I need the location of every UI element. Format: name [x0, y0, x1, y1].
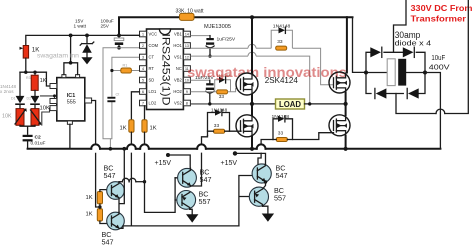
- ground right pair: [263, 206, 268, 213]
- node load left: [250, 102, 254, 106]
- 555 right pin output: [85, 98, 92, 103]
- bridge rectangle: [366, 52, 425, 93]
- diode bridge top-right: [403, 47, 414, 57]
- svg-text:diode x 4: diode x 4: [395, 39, 432, 48]
- svg-text:R1: R1: [123, 63, 128, 67]
- wire LO2 line down to middle pair bases: [145, 153, 176, 212]
- svg-text:1K: 1K: [150, 126, 157, 132]
- diode bridge bottom-right: [408, 88, 419, 98]
- diode D2: [31, 96, 40, 104]
- wire preset P2 wiper to 555 pin: [42, 108, 50, 126]
- capacitor bootstrap 1uF/25V top: [209, 36, 211, 38]
- 555 bottom pin to ground bus: [67, 121, 72, 124]
- svg-text:LOAD: LOAD: [279, 100, 301, 109]
- svg-text:2: 2: [142, 44, 144, 48]
- resistor 33K 10 watt: [180, 13, 195, 20]
- wire right rail drop to top-right mosfet drain: [346, 17, 348, 72]
- LOAD box: [276, 99, 305, 109]
- diode D1: [16, 96, 25, 104]
- wire 555 out down to 1K pair: [96, 153, 100, 207]
- svg-text:MJE13005: MJE13005: [204, 24, 231, 30]
- svg-text:330V DC From: 330V DC From: [411, 3, 473, 13]
- wire network D feed from right pair: [261, 140, 273, 145]
- node rail-zener: [85, 34, 89, 38]
- svg-text:IC1: IC1: [67, 93, 75, 99]
- svg-text:+15V: +15V: [221, 160, 238, 167]
- wire bridge plus to bus: [425, 73, 440, 149]
- node rail-100uF corner: [117, 34, 121, 38]
- svg-text:555: 555: [67, 100, 76, 106]
- resistor R1: [112, 70, 140, 72]
- svg-text:8: 8: [186, 102, 188, 106]
- svg-text:+15V: +15V: [155, 160, 172, 167]
- svg-text:33: 33: [278, 130, 284, 136]
- wire LO1 line down and across to right pair bases: [131, 153, 239, 226]
- wire 1K chain to bases: [100, 190, 107, 192]
- resistor 1K top left: [23, 46, 28, 59]
- svg-text:NC: NC: [176, 66, 182, 71]
- ground under zener: [81, 57, 92, 64]
- svg-text:1: 1: [142, 33, 144, 37]
- wire load left: [252, 103, 276, 105]
- transistor BC547 right: [252, 164, 271, 183]
- svg-text:3: 3: [142, 56, 144, 60]
- chip pin boxes right 14-8: [183, 31, 190, 106]
- wire right pair base rail: [239, 176, 254, 226]
- wire left pair midpoint to bus: [119, 149, 124, 212]
- IC IRS2453 body: [147, 29, 184, 110]
- wire middle emitters junction to network C: [191, 153, 202, 186]
- ground middle pair: [190, 209, 192, 214]
- svg-text:CT: CT: [149, 55, 155, 60]
- wire 15V rail y=35.4: [26, 35, 140, 45]
- transistor BC547 left bottom: [107, 212, 125, 230]
- wire CT path from pin3: [112, 57, 140, 97]
- transistor BC547 middle: [178, 168, 197, 187]
- wire left pair collector to LO2 line: [119, 181, 122, 183]
- wire VB2 to cap2: [191, 79, 210, 81]
- svg-text:7: 7: [142, 102, 144, 106]
- svg-text:1K: 1K: [86, 195, 93, 201]
- svg-text:Transformer: Transformer: [411, 14, 467, 24]
- svg-text:547: 547: [102, 238, 114, 247]
- svg-text:547: 547: [276, 171, 288, 180]
- svg-text:IRS2453(1)D: IRS2453(1)D: [159, 34, 171, 106]
- wire presets bottom join: [20, 125, 35, 134]
- wire network C feed from middle pair: [202, 136, 208, 145]
- svg-text:557: 557: [274, 194, 286, 203]
- 555 left pin stubs: [50, 84, 57, 89]
- chip pin boxes left 1-7: [140, 31, 147, 106]
- svg-text:4: 4: [142, 67, 144, 71]
- svg-text:10K: 10K: [40, 105, 50, 111]
- svg-text:HO2: HO2: [173, 89, 182, 94]
- mosfet Q4 bottom-right 2SK4124: [329, 115, 350, 136]
- main ground bus y=148.8: [28, 148, 92, 150]
- capacitor Ct: [107, 97, 115, 99]
- svg-text:1N4148: 1N4148: [273, 23, 291, 29]
- svg-text:1K: 1K: [120, 126, 127, 132]
- svg-text:1K: 1K: [40, 78, 47, 84]
- wire top 330V rail y=17: [119, 17, 353, 36]
- mosfet Q3 bottom-left 2SK4124: [236, 115, 258, 137]
- svg-text:LO2: LO2: [149, 101, 157, 106]
- 555 top pins and Vcc tee: [62, 75, 66, 78]
- wire node A right branch to 555: [46, 72, 50, 86]
- IC1 555 box: [57, 78, 85, 121]
- svg-text:13: 13: [185, 44, 189, 48]
- chip pin names: [149, 32, 159, 106]
- wire VS2 load wire: [191, 103, 253, 105]
- svg-text:14: 14: [185, 33, 189, 37]
- svg-text:x 2nos: x 2nos: [0, 89, 14, 94]
- svg-text:10uF: 10uF: [431, 55, 445, 62]
- svg-text:1uF/25V: 1uF/25V: [217, 37, 236, 43]
- svg-text:33: 33: [214, 123, 220, 129]
- node load right: [344, 102, 348, 106]
- bridge mid rail and nodes: [366, 72, 425, 74]
- wire right emitters junction: [264, 180, 267, 183]
- mosfet Q2 top-right 2SK4124: [329, 72, 350, 93]
- svg-text:RT: RT: [149, 66, 155, 71]
- wire right pair feed continues below bus: [258, 153, 261, 164]
- svg-text:R3: R3: [26, 76, 31, 80]
- preset P2 10K: [34, 105, 36, 109]
- svg-text:10K: 10K: [2, 114, 12, 120]
- svg-text:HO1: HO1: [173, 43, 182, 48]
- svg-text:VS2: VS2: [174, 101, 182, 106]
- capacitor bootstrap 1uF/25V lower: [209, 80, 211, 83]
- diode bridge bottom-left: [376, 88, 387, 98]
- wire VS1 y=56.1: [191, 55, 249, 57]
- svg-text:547: 547: [104, 171, 116, 180]
- svg-text:swagatam inn: swagatam inn: [37, 53, 79, 60]
- resistor 1K on LO2: [144, 106, 146, 120]
- svg-text:25V: 25V: [101, 24, 110, 29]
- resistor 1K buffer bottom: [97, 209, 102, 221]
- wire VB1 to cap: [191, 35, 211, 37]
- svg-text:1 watt: 1 watt: [74, 24, 87, 29]
- wire node A horizontal y=72.2: [20, 71, 46, 73]
- transistor BC557 right: [249, 187, 268, 206]
- node rail-555 feed: [69, 34, 73, 38]
- svg-text:5: 5: [142, 79, 144, 83]
- svg-text:1K: 1K: [86, 212, 93, 218]
- wire pin1 VCC to rail: [119, 34, 140, 36]
- svg-text:2SK4124: 2SK4124: [265, 76, 299, 85]
- svg-text:SD: SD: [149, 78, 155, 83]
- svg-text:12: 12: [185, 56, 189, 60]
- svg-text:9: 9: [186, 90, 188, 94]
- zener diode 15V: [86, 35, 88, 43]
- resistor 1K buffer top: [97, 192, 102, 204]
- wire HO2 to network B to gate: [191, 88, 241, 92]
- mosfet top-left drain rail: [250, 15, 254, 19]
- svg-text:VS1: VS1: [174, 55, 182, 60]
- svg-text:0.01uF: 0.01uF: [31, 141, 46, 147]
- transistor BC557 middle: [177, 191, 196, 210]
- wire COM gray path from pin2: [103, 48, 140, 149]
- transistor BC547 left top: [107, 182, 125, 200]
- svg-text:400V: 400V: [429, 64, 450, 71]
- resistor 1K on LO1: [131, 92, 139, 120]
- wire HO1 y=48.2 to right: [191, 47, 249, 49]
- svg-text:VB1: VB1: [174, 32, 182, 37]
- supply +15V left: [166, 153, 170, 157]
- wire transformer lead 2: [445, 0, 469, 114]
- wire left pair bottom emitter to LO1 line: [119, 226, 131, 229]
- preset P1 10K: [19, 105, 21, 109]
- capacitor 100uF 25V: [118, 35, 120, 38]
- svg-text:C2: C2: [35, 135, 42, 141]
- svg-text:557: 557: [199, 197, 211, 206]
- svg-text:D2: D2: [27, 97, 32, 101]
- svg-text:33K. 10 watt: 33K. 10 watt: [176, 8, 204, 14]
- diode bridge top-left: [370, 47, 381, 57]
- capacitor 10uF 400V: [387, 59, 395, 86]
- svg-text:VB2: VB2: [174, 78, 182, 83]
- svg-text:6: 6: [142, 90, 144, 94]
- wire transformer lead 1: [394, 0, 407, 52]
- svg-text:33: 33: [277, 39, 283, 45]
- capacitor C2 0.01uF: [23, 135, 33, 137]
- svg-text:LO1: LO1: [149, 89, 157, 94]
- wire 1K to node A: [25, 58, 27, 72]
- svg-text:33: 33: [219, 94, 225, 100]
- wire R3 to D2: [34, 90, 36, 96]
- wire diode junction to 555 pin: [40, 96, 55, 101]
- supply +15V right: [233, 151, 237, 155]
- wire rail drop to bridge plus node: [353, 17, 367, 72]
- svg-text:D1: D1: [11, 97, 16, 101]
- wire D1 branch: [19, 72, 21, 96]
- svg-text:VCC: VCC: [149, 32, 158, 37]
- resistor 1K (R3) mid: [34, 72, 36, 75]
- wire load right: [305, 103, 346, 105]
- mosfet Q1 top-left 2SK4124: [236, 73, 258, 95]
- svg-text:COM: COM: [149, 43, 159, 48]
